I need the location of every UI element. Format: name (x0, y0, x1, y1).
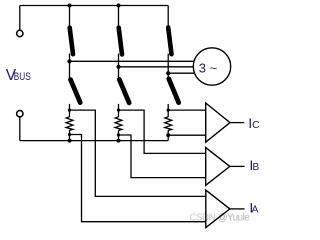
op-amp U1 (phase C sense) (206, 103, 230, 142)
label IA (249, 200, 258, 216)
switch Q4 low-side leg2 (119, 79, 129, 103)
wire shunt R1 bottom tap to IA amp (70, 135, 206, 222)
node: phase B (116, 65, 120, 69)
wire IA amp output (230, 208, 245, 210)
svg-text:A: A (252, 204, 259, 215)
wire leg 3 middle (167, 54, 169, 79)
switch Q3 high-side leg2 (119, 28, 122, 55)
wire leg 2 resistor-to-bus (118, 130, 120, 140)
op-amp U2 (phase B sense) (206, 148, 230, 186)
switch Q5 high-side leg3 (168, 28, 171, 55)
resistor R3 shunt leg3 (165, 117, 172, 131)
switch Q1 high-side leg1 (70, 28, 73, 55)
wire shunt R3 bottom tap to IC amp (168, 134, 206, 136)
switch Q6 low-side leg3 (169, 79, 179, 103)
label IC (248, 116, 260, 132)
svg-text:B: B (252, 162, 259, 173)
resistor R2 shunt leg2 (115, 117, 122, 131)
node: phase A (67, 59, 71, 63)
wire leg 1 middle (69, 54, 71, 79)
node: R1 bottom tap (68, 133, 71, 136)
terminal DC+ (17, 30, 23, 36)
node: R1 top tap (68, 109, 71, 112)
wire shunt R2 top tap to IB amp (119, 110, 206, 153)
wire: top DC+ bus (20, 5, 168, 7)
wire IB amp output (230, 165, 245, 167)
wire phase C to motor (168, 72, 194, 74)
wire leg 1 upper (69, 6, 71, 29)
wire leg 2 lower (118, 104, 120, 117)
svg-text:3 ~: 3 ~ (199, 60, 218, 75)
watermark CSDN @Yuule (189, 213, 250, 224)
node: ground bus leg2 (117, 139, 121, 143)
wire IC amp output (230, 122, 244, 124)
wire leg 1 resistor-to-bus (69, 130, 71, 140)
wire shunt R2 bottom tap to IB amp (119, 135, 206, 178)
label IB (249, 158, 259, 174)
node: R3 bottom tap (166, 133, 170, 137)
node: top bus leg1 (68, 4, 72, 8)
wire: DC- terminal drop (19, 117, 21, 141)
node: ground bus leg1 (68, 139, 72, 143)
node: top bus leg2 (117, 4, 121, 8)
wire leg 3 resistor-to-bus (167, 130, 169, 140)
node: phase C (166, 71, 170, 75)
wire phase A to motor (70, 60, 195, 62)
svg-text:BUS: BUS (14, 71, 31, 83)
wire shunt R3 top tap to IC amp (168, 109, 206, 111)
switch Q2 low-side leg1 (71, 80, 81, 103)
node: R2 top tap (117, 109, 120, 112)
resistor R1 shunt leg1 (66, 117, 73, 131)
node: R3 top tap (167, 109, 170, 112)
op-amp U3 body fill (206, 190, 230, 228)
wire phase B to motor (119, 66, 194, 68)
motor M1 3-phase (193, 48, 230, 85)
node: R2 bottom tap (117, 133, 120, 136)
wire leg 2 upper (118, 6, 120, 29)
wire leg 1 lower (69, 104, 71, 117)
wire leg 2 middle (118, 54, 120, 79)
op-amp U3 (phase A sense) (206, 190, 230, 228)
wire: bottom ground bus (20, 140, 168, 142)
svg-text:C: C (252, 120, 260, 131)
wire: DC+ terminal riser (19, 6, 21, 31)
wire leg 3 lower (167, 104, 169, 117)
label VBUS (6, 67, 31, 84)
wire shunt R1 top tap to IA amp (70, 110, 206, 196)
wire leg 3 upper (167, 6, 169, 29)
terminal DC- (17, 111, 23, 117)
